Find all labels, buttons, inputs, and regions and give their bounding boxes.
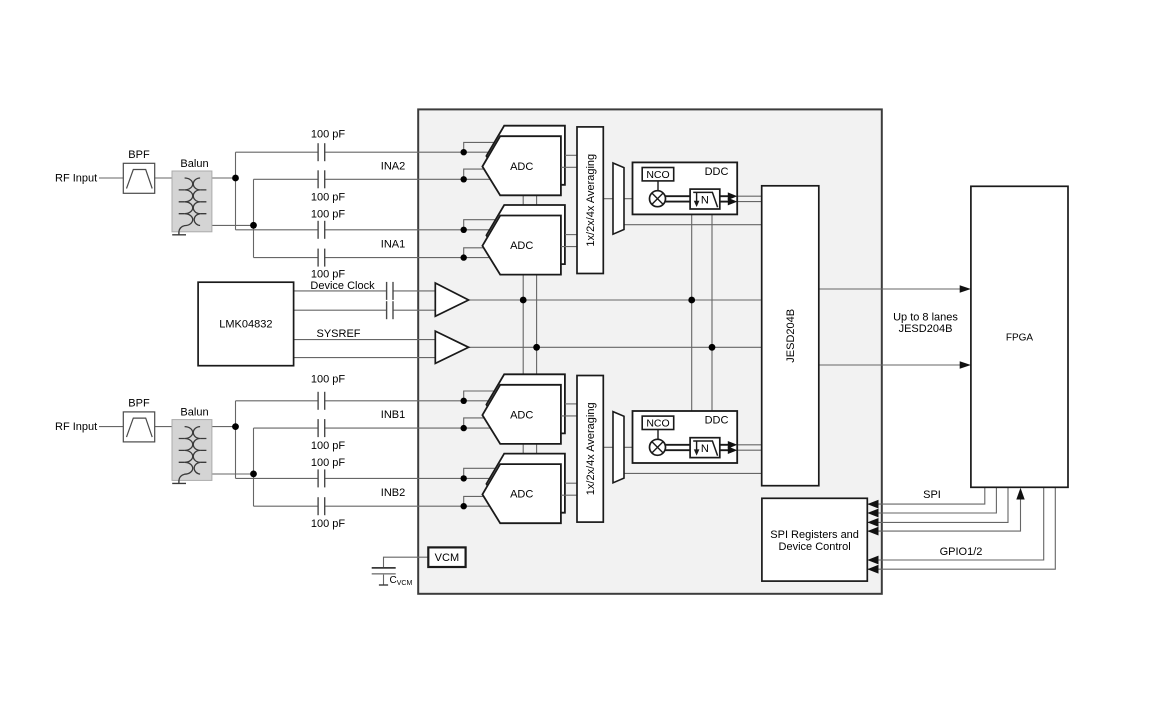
decimation filter A (down-N) xyxy=(690,189,720,209)
wire GPIO1 xyxy=(868,487,1044,560)
wire SPI 2 xyxy=(868,487,996,513)
wire mixer B to decimation (I/Q pair) xyxy=(666,445,691,450)
node junction pin INA1+ xyxy=(461,227,467,233)
selector S2 xyxy=(613,412,624,483)
wire averaging A to selector xyxy=(603,198,613,200)
capacitor C7 100 pF INB2+ xyxy=(318,469,325,487)
arrow SPI 2 into SPI registers xyxy=(867,509,878,518)
svg-text:100 pF: 100 pF xyxy=(311,374,346,386)
wire sysref vertical to DDCs xyxy=(711,214,713,411)
svg-text:SPI: SPI xyxy=(923,489,941,501)
wire INA2+ right of C1 to ADC xyxy=(325,151,491,153)
svg-text:DDC: DDC xyxy=(705,414,729,426)
wire stub INA1+ to shadow ADC xyxy=(464,220,496,230)
wire NCO B to mixer xyxy=(657,430,659,440)
svg-text:INB1: INB1 xyxy=(381,409,405,421)
wire DDC A output Q to JESD204B xyxy=(737,201,762,203)
wire INB2- left of C8 xyxy=(254,505,319,507)
node junction pin INA1- xyxy=(461,254,467,260)
decimation filter B (down-N) xyxy=(690,438,720,458)
svg-text:DDC: DDC xyxy=(705,166,729,178)
wire INB2+ left of C7 xyxy=(236,477,319,479)
net label Up to 8 lanes JESD204B xyxy=(893,312,958,336)
wire device clock N from LMK04832 xyxy=(294,309,387,311)
adc B2 front xyxy=(482,464,561,523)
svg-text:ADC: ADC xyxy=(510,409,533,421)
svg-text:N: N xyxy=(701,443,709,455)
filter FL2 BPF B xyxy=(123,398,154,442)
arrow SPI 1 into SPI registers xyxy=(867,500,878,509)
svg-text:INA2: INA2 xyxy=(381,160,405,172)
wire SPI 1 xyxy=(868,487,985,504)
wire balun A minus output to node A2 xyxy=(200,224,253,226)
wire RF input A to BPF xyxy=(99,177,123,179)
node junction pin INB1- xyxy=(461,425,467,431)
block averaging B xyxy=(577,376,603,523)
wire sysref vertical to ADCs left xyxy=(536,195,538,464)
wire bypass B to JESD204B xyxy=(624,472,762,474)
ground balun A xyxy=(172,232,186,235)
svg-text:SPI Registers and: SPI Registers and xyxy=(770,529,859,541)
wire JESD lane 1 to FPGA xyxy=(819,288,963,290)
svg-text:GPIO1/2: GPIO1/2 xyxy=(940,546,983,558)
mixer B xyxy=(650,439,666,455)
wire SYSREF N xyxy=(294,357,436,359)
wire stub INB1+ to shadow ADC xyxy=(464,391,495,401)
wire vertical bus A minus xyxy=(253,179,255,257)
block DDC A xyxy=(633,162,738,214)
capacitor C5 100 pF INB1+ xyxy=(318,392,325,410)
capacitor C3 100 pF INA1+ xyxy=(318,221,325,239)
node junction sysref rail 1 xyxy=(533,344,540,351)
wire SYSREF P xyxy=(294,339,436,341)
svg-text:Up to 8 lanes: Up to 8 lanes xyxy=(893,312,958,324)
svg-text:Balun: Balun xyxy=(180,407,208,419)
node junction pin INB2- xyxy=(461,503,467,509)
arrow SPI 3 into SPI registers xyxy=(867,518,878,527)
arrow DDC B output Q xyxy=(728,446,738,454)
wire vertical bus A plus xyxy=(235,152,237,230)
node junction clock rail 1 xyxy=(520,297,527,304)
wire clock vertical to ADCs left xyxy=(522,195,524,464)
wire SPI 4 to FPGA xyxy=(868,498,1021,531)
wire balun B minus output to node B2 xyxy=(200,473,253,475)
buffer U3 sysref xyxy=(435,331,468,363)
capacitor C4 100 pF INA1- xyxy=(318,249,325,267)
svg-text:ADC: ADC xyxy=(510,240,533,252)
adc A2 shadow xyxy=(486,126,565,185)
svg-text:LMK04832: LMK04832 xyxy=(219,319,272,331)
svg-text:100 pF: 100 pF xyxy=(311,457,346,469)
node junction balun A minus xyxy=(250,222,257,229)
svg-text:N: N xyxy=(701,194,709,206)
wire stub INA2- to ADC point xyxy=(464,169,484,179)
svg-text:100 pF: 100 pF xyxy=(311,129,346,141)
svg-text:Device Control: Device Control xyxy=(779,541,851,553)
wire stub INB1- to ADC point xyxy=(464,418,484,428)
wire mixer A to decimation (I/Q pair) xyxy=(666,196,691,201)
svg-text:RF Input: RF Input xyxy=(55,421,97,433)
wire stub INA1- to ADC point xyxy=(464,248,484,258)
svg-text:1x/2x/4x Averaging: 1x/2x/4x Averaging xyxy=(585,402,597,495)
selector S1 xyxy=(613,163,624,234)
block DDC B xyxy=(633,411,738,463)
wire averaging B to selector xyxy=(603,446,613,448)
wire JESD lane 2 to FPGA xyxy=(819,364,963,366)
adc A1 shadow xyxy=(486,205,565,264)
arrow DDC A output I xyxy=(728,192,738,200)
svg-text:INA1: INA1 xyxy=(381,238,405,250)
svg-text:NCO: NCO xyxy=(646,169,669,181)
block SPI registers and device control xyxy=(762,498,867,581)
clock generator U4 LMK04832 xyxy=(198,282,294,366)
wire adc B1 outputs to averaging xyxy=(561,404,577,416)
adc A2 front xyxy=(482,136,561,195)
svg-text:CVCM: CVCM xyxy=(390,575,413,587)
wire SPI 3 xyxy=(868,487,1008,522)
block FPGA xyxy=(971,186,1068,487)
wire adc A1 outputs to averaging xyxy=(561,235,577,247)
node junction clock rail 2 xyxy=(688,297,695,304)
block NCO A xyxy=(642,168,674,182)
arrow DDC B output I xyxy=(728,441,738,449)
transformer T1 balun A xyxy=(172,158,212,232)
wire INB2+ right of C7 to ADC xyxy=(325,477,492,479)
adc A1 front xyxy=(482,216,561,275)
buffer U2 device clock xyxy=(435,283,468,316)
transformer T2 balun B xyxy=(172,407,212,481)
adc B1 front xyxy=(482,385,561,444)
arrow DDC A output Q xyxy=(728,198,738,206)
mixer A xyxy=(650,191,666,207)
ground Cvcm xyxy=(379,584,388,586)
svg-text:100 pF: 100 pF xyxy=(311,518,346,530)
chip U1 ADC32RF45 (main gray block) xyxy=(418,109,882,593)
arrow JESD lane 2 into FPGA xyxy=(960,361,971,368)
wire RF input B to BPF xyxy=(99,426,123,428)
svg-text:BPF: BPF xyxy=(128,398,150,410)
svg-text:FPGA: FPGA xyxy=(1006,332,1034,343)
svg-text:Device Clock: Device Clock xyxy=(310,280,375,292)
wire Cvcm to ground xyxy=(383,574,385,585)
block averaging A xyxy=(577,127,603,274)
wire DDC A output I to JESD204B xyxy=(737,195,762,197)
svg-text:100 pF: 100 pF xyxy=(311,192,346,204)
wire device clock P to buffer xyxy=(393,290,435,292)
wire stub INA2+ to shadow ADC xyxy=(464,142,495,152)
wire clock vertical to DDCs xyxy=(691,214,693,411)
arrow JESD lane 1 into FPGA xyxy=(960,285,971,292)
svg-text:SYSREF: SYSREF xyxy=(316,328,360,340)
ground balun B xyxy=(172,480,186,483)
wire stub INB2+ to shadow ADC xyxy=(464,468,496,478)
wire adc B2 outputs to averaging xyxy=(561,483,577,495)
wire INB1+ right of C5 to ADC xyxy=(325,400,491,402)
block NCO B xyxy=(642,416,674,430)
node junction pin INB2+ xyxy=(461,475,467,481)
svg-text:RF Input: RF Input xyxy=(55,173,97,185)
wire stub INB2- to ADC point xyxy=(464,496,484,506)
wire SYSREF rail from buffer U3 xyxy=(469,346,762,348)
node junction balun A plus xyxy=(232,175,239,182)
node junction pin INB1+ xyxy=(461,398,467,404)
wire INB1- right of C6 to ADC xyxy=(325,427,491,429)
capacitor C10 device clock N xyxy=(387,301,393,319)
wire BPF A to balun A xyxy=(155,177,185,179)
svg-text:Balun: Balun xyxy=(180,158,208,170)
wire INA1+ left of C3 xyxy=(236,229,319,231)
filter FL1 BPF A xyxy=(123,149,154,193)
wire VCM to external cap xyxy=(384,557,429,568)
wire BPF B to balun B xyxy=(155,426,185,428)
node junction sysref rail 2 xyxy=(709,344,716,351)
capacitor C1 100 pF INA2+ xyxy=(318,143,325,161)
capacitor C6 100 pF INB1- xyxy=(318,419,325,437)
wire INB1+ left of C5 xyxy=(236,400,319,402)
node junction pin INA2- xyxy=(461,176,467,182)
wire decimation B outputs xyxy=(720,445,729,450)
arrow SPI 4 into SPI registers xyxy=(867,527,878,536)
wire vertical bus B plus xyxy=(235,401,237,479)
wire INA2+ left of C1 xyxy=(236,151,319,153)
wire NCO A to mixer xyxy=(657,181,659,191)
wire selector B to mixer xyxy=(624,446,650,448)
wire INB2- right of C8 to ADC xyxy=(325,505,490,507)
arrow SPI 4 into FPGA xyxy=(1016,488,1024,500)
capacitor C2 100 pF INA2- xyxy=(318,170,325,188)
arrow GPIO1 into SPI registers xyxy=(867,556,878,565)
wire INA2- left of C2 xyxy=(254,178,319,180)
svg-text:VCM: VCM xyxy=(435,552,459,564)
wire DDC B output Q to JESD204B xyxy=(737,449,762,451)
svg-text:BPF: BPF xyxy=(128,149,150,161)
svg-text:100 pF: 100 pF xyxy=(311,269,346,281)
svg-text:INB2: INB2 xyxy=(381,487,405,499)
wire bypass A to JESD204B xyxy=(624,224,762,226)
capacitor C8 100 pF INB2- xyxy=(318,497,325,515)
wire clock rail from buffer U2 xyxy=(469,299,762,301)
wire INA1+ right of C3 to ADC xyxy=(325,229,492,231)
node junction balun B minus xyxy=(250,471,257,478)
svg-text:JESD204B: JESD204B xyxy=(899,323,953,335)
wire selector A to mixer xyxy=(624,198,650,200)
svg-text:1x/2x/4x Averaging: 1x/2x/4x Averaging xyxy=(585,154,597,247)
wire balun A plus output to node A1 xyxy=(200,177,235,179)
wire balun B plus output to node B1 xyxy=(200,426,235,428)
wire device clock P from LMK04832 xyxy=(294,290,387,292)
wire vertical bus B minus xyxy=(253,428,255,506)
capacitor C9 device clock P xyxy=(387,282,393,300)
svg-text:ADC: ADC xyxy=(510,161,533,173)
wire decimation A outputs xyxy=(720,196,729,201)
capacitor Cvcm xyxy=(372,568,413,587)
svg-text:NCO: NCO xyxy=(646,418,669,430)
node junction pin INA2+ xyxy=(461,149,467,155)
node junction balun B plus xyxy=(232,423,239,430)
arrow GPIO2 into SPI registers xyxy=(867,565,878,574)
wire INA2- right of C2 to ADC xyxy=(325,178,491,180)
adc B2 shadow xyxy=(486,454,565,513)
wire INB1- left of C6 xyxy=(254,427,319,429)
wire adc A2 outputs to averaging xyxy=(561,155,577,167)
adc B1 shadow xyxy=(486,374,565,433)
wire INA1- left of C4 xyxy=(254,257,319,259)
block JESD204B interface xyxy=(762,186,819,486)
wire device clock N to buffer xyxy=(393,309,435,311)
svg-text:100 pF: 100 pF xyxy=(311,440,346,452)
svg-text:JESD204B: JESD204B xyxy=(785,309,797,363)
svg-text:ADC: ADC xyxy=(510,489,533,501)
wire GPIO2 xyxy=(868,487,1055,569)
svg-text:100 pF: 100 pF xyxy=(311,209,346,221)
block VCM pin xyxy=(428,547,465,567)
wire DDC B output I to JESD204B xyxy=(737,444,762,446)
wire INA1- right of C4 to ADC xyxy=(325,257,490,259)
